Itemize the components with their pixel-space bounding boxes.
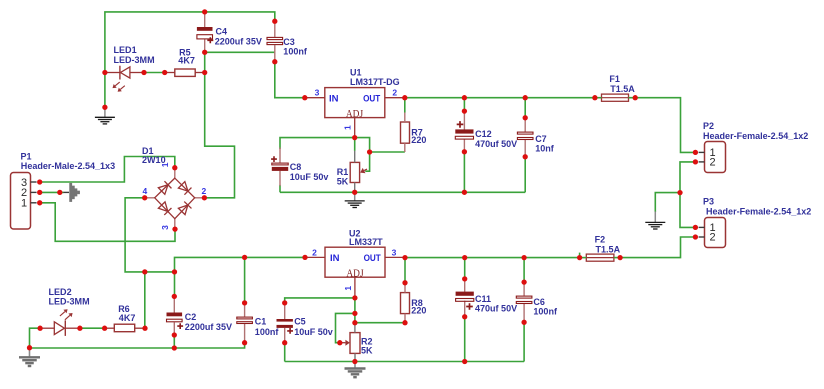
- wire P1 pin 1 to bridge pin 3: [40, 203, 175, 242]
- F1 pin stubs: [595, 97, 635, 99]
- P1 pin stubs: [31, 182, 37, 203]
- svg-text:IN: IN: [329, 93, 339, 104]
- bridge rectifier D1 diamond and pin stubs: [145, 168, 205, 229]
- wire C11 top drop: [464, 258, 466, 279]
- svg-text:3: 3: [160, 225, 170, 230]
- wire F2 to P3 pin 2: [620, 237, 695, 258]
- svg-text:OUT: OUT: [363, 93, 380, 104]
- LED1 emission arrows: [113, 82, 120, 88]
- U1 pin stubs: [306, 98, 404, 137]
- D1 diode top-left: [158, 181, 171, 194]
- capacitor C2 pins: [173, 296, 175, 335]
- wire U2 ADJ to C5 top: [285, 298, 355, 303]
- svg-text:1: 1: [342, 125, 352, 130]
- capacitor C11 electrolytic 470uf 50V: [456, 292, 474, 310]
- svg-text:1: 1: [21, 198, 27, 210]
- D1 diode bottom-right: [178, 202, 191, 215]
- wire F1 to P2 pin 1: [635, 98, 695, 153]
- resistor R7 body: [401, 122, 410, 143]
- wire LED2 to R6: [80, 327, 105, 329]
- capacitor C1 ceramic 100nf: [237, 317, 253, 323]
- svg-text:220: 220: [411, 305, 426, 316]
- svg-text:3: 3: [392, 247, 397, 257]
- node R2 junctions: [337, 340, 357, 364]
- svg-text:100nf: 100nf: [283, 46, 307, 57]
- regulator U1 body: [325, 88, 385, 118]
- wire C11 bottom drop: [464, 317, 466, 362]
- wire C7 top drop: [524, 98, 526, 118]
- P2 pin stubs: [699, 152, 705, 162]
- wire R1 top segment: [354, 138, 356, 151]
- svg-text:C5: C5: [294, 316, 306, 327]
- wire U1 ADJ to R7 bottom: [355, 138, 405, 152]
- ground earth symbol right of P3: [654, 212, 656, 223]
- connector P1 body: [11, 173, 31, 230]
- node C7 junctions: [523, 115, 528, 159]
- ground gray symbol bottom left: [29, 349, 31, 357]
- node R1 bottom junction: [352, 190, 357, 195]
- wire bridge pin 4 negative run: [125, 198, 174, 272]
- wire negative branch down to R6: [144, 272, 146, 328]
- svg-text:T1.5A: T1.5A: [596, 244, 621, 255]
- wire C8 top segment: [280, 138, 355, 149]
- svg-text:3: 3: [315, 88, 320, 98]
- R1 pin stubs: [354, 151, 356, 192]
- capacitor C8 pins: [279, 148, 281, 186]
- svg-text:C1: C1: [255, 316, 266, 327]
- capacitor C5 electrolytic 10uF 50v: [277, 319, 294, 334]
- node P1 pin junctions: [37, 179, 62, 205]
- node U1 OUT rail junctions: [402, 95, 638, 100]
- capacitor C7 ceramic 10nf: [517, 132, 533, 139]
- wire LED2 anode corner to ground: [30, 328, 41, 349]
- node LED1 R5 junctions: [141, 70, 167, 75]
- node C2 junctions: [172, 294, 177, 351]
- svg-text:4K7: 4K7: [119, 312, 136, 323]
- wire U2 ADJ down to R8 bottom: [355, 298, 405, 323]
- ground earth symbol below R1: [354, 192, 356, 200]
- wire C2 bottom segment: [173, 335, 175, 348]
- svg-text:2: 2: [709, 157, 715, 169]
- capacitor C12 electrolytic 470uf 50V: [455, 121, 473, 139]
- wire C1 top drop: [244, 257, 246, 303]
- svg-text:LED-3MM: LED-3MM: [49, 296, 90, 307]
- svg-text:2200uf 35V: 2200uf 35V: [215, 35, 263, 46]
- ground lines below R1: [345, 201, 365, 208]
- node P2 P3 junctions: [677, 150, 698, 240]
- wire C12 bottom drop: [463, 152, 465, 193]
- svg-text:LM317T-DG: LM317T-DG: [350, 76, 400, 87]
- node C1 junctions: [242, 255, 247, 346]
- resistor R8 body: [401, 293, 410, 314]
- node C3 pin junctions: [272, 19, 277, 65]
- LED LED2 symbol: [42, 320, 79, 336]
- svg-text:4: 4: [143, 186, 148, 196]
- wire C6 bottom drop: [523, 322, 525, 361]
- capacitor C4 pins: [204, 12, 206, 52]
- wire P2 pin 2 to P3 pin 1: [680, 162, 695, 228]
- node R8 junctions: [402, 280, 407, 325]
- svg-text:2200uf 35V: 2200uf 35V: [185, 321, 233, 332]
- ground bars below R2: [345, 369, 366, 378]
- trimmer R2 body: [350, 333, 360, 354]
- svg-text:2: 2: [202, 186, 207, 196]
- svg-text:220: 220: [411, 134, 426, 145]
- wire R8 top segment: [404, 258, 406, 283]
- node C6 junctions: [521, 279, 526, 324]
- wire R7 top segment: [404, 98, 406, 113]
- wire U2 OUT rail to F2: [405, 257, 580, 259]
- wire negative side ground rail: [285, 361, 524, 363]
- capacitor C8 electrolytic 10uF 50v: [271, 156, 288, 171]
- capacitor C12 pins: [463, 111, 465, 152]
- ground bars bottom left: [19, 357, 40, 366]
- wire C7 bottom drop: [524, 157, 526, 193]
- capacitor C5 pins: [284, 303, 286, 343]
- capacitor C3 pins: [274, 21, 276, 62]
- svg-text:4K7: 4K7: [178, 55, 195, 66]
- node U2 ADJ junctions: [352, 295, 357, 325]
- svg-text:Header-Female-2.54_1x2: Header-Female-2.54_1x2: [706, 205, 811, 216]
- node raw+ junctions: [202, 50, 208, 201]
- resistor R6 body: [114, 324, 134, 332]
- svg-text:Header-Female-2.54_1x2: Header-Female-2.54_1x2: [703, 130, 808, 141]
- connector P3 body: [705, 218, 726, 248]
- svg-text:2: 2: [709, 232, 715, 244]
- ground gray symbol below R2: [354, 362, 356, 369]
- wire positive side ground rail: [280, 191, 525, 193]
- wire C4 bottom to C3 pin horizontal: [205, 51, 275, 53]
- ground earth symbol below LED1: [104, 107, 106, 117]
- chassis ground at P1 pin 2: [64, 191, 70, 193]
- svg-text:10uF 50v: 10uF 50v: [294, 326, 333, 337]
- resistor R5 body: [175, 69, 195, 76]
- wire C12 top drop: [463, 98, 465, 111]
- R2 wiper arrow: [341, 340, 350, 346]
- capacitor C2 electrolytic 2200uf 35V: [167, 313, 184, 330]
- wire R2 wiper branch: [336, 313, 355, 342]
- node LED2 R6 junctions: [37, 326, 147, 331]
- svg-text:OUT: OUT: [364, 253, 381, 264]
- ground lines right side: [645, 222, 665, 229]
- wire LED1 to R5: [144, 72, 165, 74]
- wire C1 bottom to GND rail A: [30, 343, 245, 348]
- wire P1 pin 3 to bridge pin 1: [40, 157, 175, 183]
- capacitor C11 pins: [464, 279, 466, 317]
- svg-text:470uf 50V: 470uf 50V: [475, 302, 518, 313]
- wire output ground branch: [655, 193, 680, 212]
- R2 pin stubs: [354, 323, 356, 362]
- svg-text:2W10: 2W10: [142, 154, 166, 165]
- svg-text:5K: 5K: [337, 176, 349, 187]
- chassis ground bars: [71, 183, 79, 202]
- U2 pin stubs: [306, 257, 404, 297]
- svg-text:1: 1: [343, 286, 353, 291]
- wire R7 wiper branch to R1: [365, 152, 369, 171]
- node C5 junctions: [282, 300, 287, 345]
- capacitor C1 pins: [244, 303, 246, 343]
- svg-text:10nf: 10nf: [535, 143, 554, 154]
- regulator U2 body: [325, 247, 385, 277]
- R6 pin stubs: [106, 327, 144, 329]
- node C11 junctions: [462, 276, 467, 364]
- svg-text:LED-3MM: LED-3MM: [114, 54, 155, 65]
- D1 diode bottom-left: [158, 202, 171, 215]
- connector P2 body: [705, 142, 726, 173]
- wire P1 pin 2 to chassis ground: [40, 191, 64, 193]
- wire U1 OUT rail to F1: [405, 97, 595, 99]
- svg-text:2: 2: [312, 248, 317, 258]
- fuse F1 body: [602, 94, 629, 101]
- F2 pin stubs: [580, 257, 621, 259]
- svg-text:Header-Male-2.54_1x3: Header-Male-2.54_1x3: [21, 160, 115, 171]
- capacitor C3 ceramic 100nf: [267, 37, 283, 44]
- R1 wiper arrow: [360, 168, 367, 173]
- node U1 IN junction: [302, 95, 307, 100]
- capacitor C7 pins: [524, 118, 526, 157]
- node U1 ADJ junctions: [352, 135, 372, 155]
- svg-text:100nf: 100nf: [533, 306, 557, 317]
- svg-text:T1.5A: T1.5A: [610, 83, 635, 94]
- wire raw+ from C4 bottom through R5 junction down to bridge pin 2: [204, 52, 234, 198]
- node negative run junctions: [142, 269, 177, 274]
- node GND rail A junction: [27, 345, 32, 350]
- svg-text:100nf: 100nf: [255, 326, 279, 337]
- ground lines below LED1: [95, 117, 115, 124]
- fuse F2 body: [586, 254, 614, 261]
- P3 pin stubs: [699, 227, 705, 237]
- trimmer R1 body: [350, 162, 359, 182]
- R7 pin stubs: [404, 113, 406, 153]
- LED2 emission arrows: [60, 309, 68, 316]
- wire C3 bottom to U1 IN: [275, 62, 305, 98]
- node D1 terminal junctions: [142, 165, 178, 232]
- R5 pin stubs: [166, 72, 204, 74]
- svg-text:IN: IN: [330, 253, 340, 264]
- svg-text:470uf 50V: 470uf 50V: [475, 138, 518, 149]
- svg-text:ADJ: ADJ: [346, 108, 364, 120]
- svg-text:LM337T: LM337T: [349, 236, 383, 247]
- svg-text:2: 2: [392, 88, 397, 98]
- wire C8 bottom segment: [279, 185, 281, 192]
- D1 diode top-right: [178, 181, 191, 194]
- R8 pin stubs: [404, 283, 406, 323]
- capacitor C6 pins: [523, 282, 525, 322]
- svg-text:10uF 50v: 10uF 50v: [290, 171, 329, 182]
- capacitor C6 ceramic 100nf: [516, 296, 532, 303]
- node C12 junctions: [462, 108, 467, 195]
- svg-text:ADJ: ADJ: [346, 267, 364, 279]
- wire GND top rail from LED1 anode to C3 top: [105, 12, 275, 107]
- wire C6 top drop: [523, 258, 525, 283]
- node U2 IN junction: [302, 255, 307, 260]
- svg-text:5K: 5K: [361, 345, 373, 356]
- node GND top rail junctions: [102, 9, 207, 110]
- node U2 OUT rail junctions: [402, 255, 622, 260]
- wire stub above F2 left terminal: [579, 253, 581, 258]
- wire C5 bottom drop: [284, 343, 286, 362]
- LED LED1 symbol: [106, 66, 142, 80]
- capacitor C4 electrolytic 2200uf 35V: [197, 27, 213, 43]
- wire negative vertical to U2 IN: [175, 257, 306, 296]
